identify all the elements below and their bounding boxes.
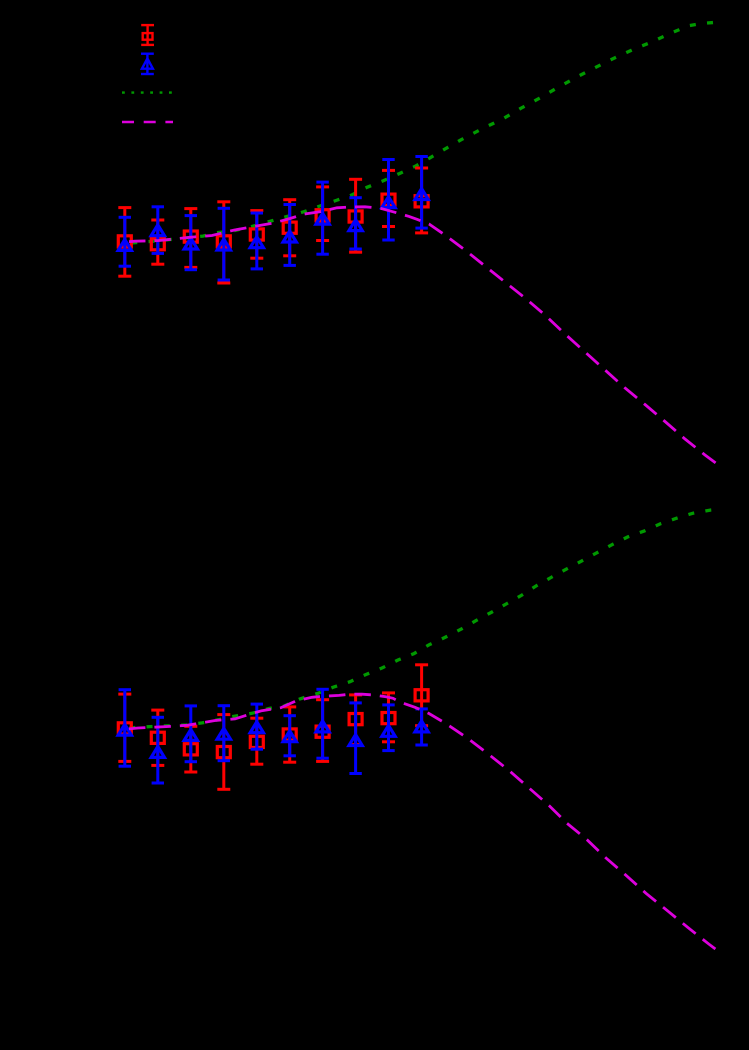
top panel magenta dashed theory curve: [120, 207, 716, 463]
top panel blue triangle point 2: [148, 207, 167, 254]
bottom panel blue triangle point 2: [148, 717, 167, 783]
top panel blue triangle point 5: [247, 213, 266, 269]
bottom panel blue triangle point 7: [313, 689, 332, 758]
bottom panel red square point 5: [250, 718, 263, 764]
top panel red square point 3: [184, 209, 197, 268]
bottom panel blue triangle point 1: [115, 690, 134, 767]
bottom panel blue triangle point 6: [280, 716, 299, 756]
top panel blue triangle point 3: [181, 216, 200, 270]
top panel blue triangle point 9: [379, 160, 398, 241]
top panel red square point 10: [415, 168, 428, 233]
top panel red square point 5: [250, 211, 263, 259]
legend magenta dashed line: [122, 121, 173, 123]
top panel blue triangle point 1: [115, 217, 134, 266]
bottom panel red square point 2: [151, 710, 164, 765]
top panel red square point 4: [217, 202, 230, 283]
bottom panel blue triangle point 10: [412, 709, 431, 745]
bottom panel blue triangle point 3: [181, 706, 200, 762]
top panel blue triangle point 4: [214, 208, 233, 280]
top panel red square point 1: [118, 208, 131, 277]
bottom panel red square point 7: [316, 700, 329, 762]
top panel blue triangle point 7: [313, 182, 332, 254]
legend green dotted line: [122, 91, 173, 93]
legend blue triangle marker with error bar: [140, 54, 155, 74]
top panel red square point 8: [349, 179, 362, 252]
top panel red square point 6: [283, 200, 296, 256]
top panel red square point 2: [151, 220, 164, 264]
legend red square marker with error bar: [141, 25, 154, 45]
top panel red square point 7: [316, 187, 329, 241]
bottom panel red square point 1: [118, 694, 131, 761]
bottom panel blue triangle point 4: [214, 706, 233, 761]
top panel blue triangle point 10: [412, 157, 431, 229]
bottom panel red square point 4: [217, 715, 230, 790]
top panel green dotted theory curve: [120, 22, 715, 243]
bottom panel red square point 3: [184, 726, 197, 772]
bottom panel red square point 8: [349, 695, 362, 745]
bottom panel blue triangle point 9: [379, 705, 398, 751]
top panel blue triangle point 8: [346, 198, 365, 249]
bottom panel blue triangle point 8: [346, 703, 365, 774]
bottom panel blue triangle point 5: [247, 704, 266, 749]
bottom panel magenta dashed theory curve: [120, 694, 715, 949]
top panel blue triangle point 6: [280, 205, 299, 266]
bottom panel red square point 9: [382, 693, 395, 742]
bottom panel red square point 10: [415, 665, 428, 726]
bottom panel red square point 6: [283, 707, 296, 762]
top panel red square point 9: [382, 170, 395, 226]
bottom panel green dotted theory curve: [120, 510, 716, 729]
